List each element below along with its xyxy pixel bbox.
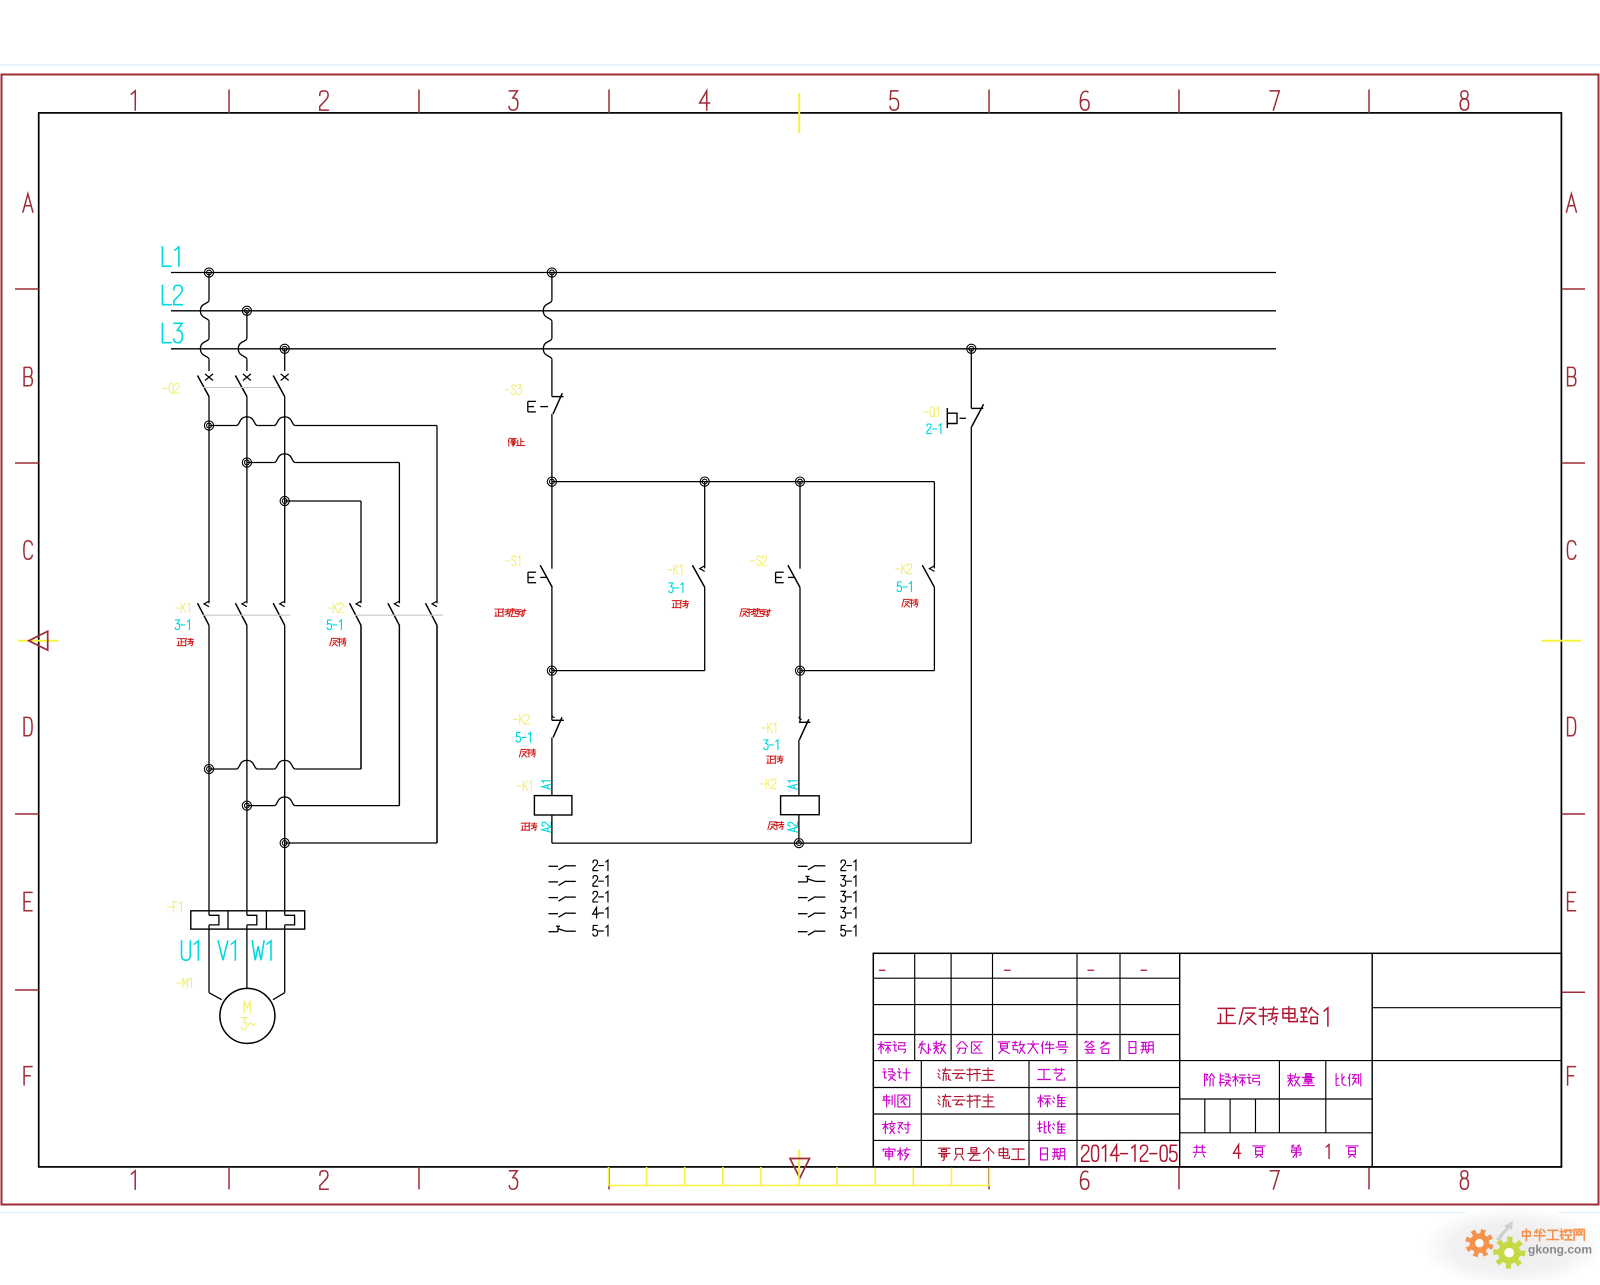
wire L3 drop to breaker xyxy=(284,349,286,371)
label A1 (K2) xyxy=(788,781,797,789)
pushbutton S1 start (NO) xyxy=(540,565,552,587)
label K2 interlock xyxy=(514,714,530,724)
contactor K2 interlock contact (NC) xyxy=(551,671,553,721)
page artifact line bottom xyxy=(0,1212,1600,1214)
node K1 pole1 out xyxy=(204,764,213,773)
wire control drop from L1 xyxy=(551,273,553,301)
wire V1 to motor xyxy=(246,929,248,988)
wire to overload pole3 xyxy=(284,843,286,915)
thermal overload F1 box xyxy=(191,911,305,929)
power rail L2 xyxy=(171,310,1276,312)
breaker Q2 pole 3 xyxy=(281,374,289,381)
wire L2 drop to breaker xyxy=(246,311,248,339)
power rail L1 xyxy=(171,272,1276,274)
wire to overload pole1 xyxy=(208,769,210,915)
wire U1 to motor xyxy=(208,929,210,993)
zone tick marks right xyxy=(1561,288,1585,290)
wire K1 pole3 feed xyxy=(284,501,286,603)
contactor K2 main contact pole2 xyxy=(394,601,399,607)
wire L3 to K2 pole1 xyxy=(285,500,361,502)
label K2 aux xyxy=(896,564,912,574)
title block row labels xyxy=(878,1043,884,1045)
wire W1 to motor xyxy=(284,929,286,993)
centre marker bottom (yellow line and red triangle) xyxy=(798,1150,800,1173)
wire S1 down xyxy=(551,587,553,670)
wire S3 to node xyxy=(551,414,553,482)
label stop xyxy=(508,438,509,441)
node K1 pole2 out xyxy=(242,801,251,810)
label A1 (K1) xyxy=(542,781,551,789)
centre marker right (yellow) xyxy=(1541,640,1581,642)
power rail L3 xyxy=(171,348,1276,350)
centre marker top (yellow) xyxy=(798,93,800,133)
zone tick marks top xyxy=(228,90,230,113)
label K1 aux xyxy=(668,565,682,575)
label K2 coil xyxy=(760,779,776,789)
node after breaker pole3 xyxy=(280,496,289,505)
label M1 xyxy=(177,978,191,988)
zone letters right xyxy=(1566,194,1576,212)
stage mark row xyxy=(1204,1074,1206,1086)
zone tick marks bottom xyxy=(228,1167,230,1190)
label L1 xyxy=(162,247,178,266)
node L1 tap main xyxy=(204,268,213,277)
label A2 (K1) xyxy=(542,822,551,832)
wire join pole3 xyxy=(285,842,437,844)
coil K1 xyxy=(534,796,572,815)
label V1 xyxy=(218,941,235,960)
contactor K2 linkage xyxy=(355,614,443,616)
wire self hold join left xyxy=(552,670,705,672)
svg-text:gkong.com: gkong.com xyxy=(1528,1243,1592,1257)
title block outline xyxy=(873,953,1561,1167)
node mid right xyxy=(795,666,804,675)
label K1 interlock xyxy=(762,723,776,733)
label S3 xyxy=(506,385,522,395)
label W1 xyxy=(252,941,271,960)
label M 3~ xyxy=(244,1001,250,1013)
watermark gear orange xyxy=(1465,1229,1493,1257)
label forward start xyxy=(495,608,503,610)
node coil K2 bottom xyxy=(794,839,803,848)
label S2 xyxy=(751,556,767,566)
overload heater element at 284.7 xyxy=(285,915,295,925)
breaker Q2 linkage xyxy=(203,387,279,389)
wire coil K2 to bottom bus xyxy=(798,815,800,843)
watermark gear green xyxy=(1493,1237,1525,1269)
wire return down xyxy=(970,427,972,843)
overload heater element at 209 xyxy=(209,915,219,925)
overload heater element at 246.9 xyxy=(247,915,257,925)
motor M1 circle xyxy=(220,988,275,1043)
breaker Q2 pole 2 xyxy=(243,374,251,381)
label Q1 xyxy=(924,407,938,417)
folding scale comb (yellow) xyxy=(609,1185,990,1187)
label forward (coil K1) xyxy=(521,822,529,824)
title block grid xyxy=(873,977,1179,979)
title block header dashes xyxy=(879,969,885,971)
contactor K1 main contact pole2 xyxy=(242,601,247,607)
drawing frame inner border xyxy=(39,113,1562,1167)
node L2 tap main xyxy=(242,306,251,315)
label L3 xyxy=(162,323,182,342)
wire L1 to K2 pole3 xyxy=(209,425,236,427)
watermark arrow xyxy=(1496,1221,1513,1241)
contactor K1 main contact pole3 xyxy=(280,601,285,607)
pushbutton S2 start reverse (NO) xyxy=(788,565,800,587)
contactor K1 aux contact (self hold) xyxy=(704,482,706,569)
wire K1 pole2 feed xyxy=(246,463,248,604)
label reverse start xyxy=(742,608,748,610)
wire self hold join right xyxy=(800,670,934,672)
wire L3 return drop xyxy=(970,349,972,409)
label K2 main xyxy=(327,603,343,613)
label K1 main xyxy=(175,603,189,613)
control bottom bus xyxy=(552,842,971,844)
zone numbers bottom xyxy=(131,1171,135,1189)
contactor K1 linkage xyxy=(203,614,290,616)
node control top left xyxy=(547,477,556,486)
wire node to S1 xyxy=(551,482,553,569)
wire S2 down xyxy=(799,587,801,670)
label F1 xyxy=(167,902,181,912)
label U1 xyxy=(182,941,199,960)
drawing title xyxy=(1218,1007,1235,1009)
node L1 tap control xyxy=(547,268,556,277)
centre marker left (yellow line and red triangle) xyxy=(18,640,58,642)
breaker Q1 auxiliary contact xyxy=(971,407,983,409)
wire join pole1 xyxy=(209,768,236,770)
watermark glow xyxy=(1420,1207,1600,1285)
label S1 xyxy=(506,556,520,566)
label reverse (coil K2) xyxy=(770,821,776,823)
title block values xyxy=(939,1070,940,1072)
wire L1 drop to breaker xyxy=(208,273,210,301)
wire join pole2 xyxy=(247,805,274,807)
wire control bus top xyxy=(552,481,935,483)
wire node to S2 xyxy=(799,482,801,569)
contact reference table K1 xyxy=(549,865,559,867)
node branch K1 aux xyxy=(700,477,709,486)
label L2 xyxy=(162,285,182,304)
node L3 tap main xyxy=(280,344,289,353)
page artifact line top xyxy=(0,64,1600,66)
pushbutton S3 stop (NC) xyxy=(552,396,564,398)
node K1 pole3 out xyxy=(280,838,289,847)
contactor K2 aux contact (self hold) xyxy=(933,482,935,569)
sheet numbering xyxy=(1196,1145,1198,1152)
contactor K1 interlock contact (NC) xyxy=(799,671,801,723)
node after breaker pole2 xyxy=(242,458,251,467)
coil K2 xyxy=(781,796,820,815)
wire L2 to K2 pole2 xyxy=(247,462,274,464)
wire to overload pole2 xyxy=(246,806,248,916)
contactor K2 main contact pole3 xyxy=(432,601,437,607)
node after breaker pole1 xyxy=(204,421,213,430)
node mid left xyxy=(547,666,556,675)
watermark text cn xyxy=(1523,1232,1531,1237)
label Q2 xyxy=(163,383,179,393)
contactor K1 main contact pole1 xyxy=(204,601,209,607)
breaker Q2 pole 1 xyxy=(205,374,213,381)
node L3 tap control return xyxy=(967,344,976,353)
label A2 (K2) xyxy=(788,822,797,832)
contact reference table K2 xyxy=(798,865,808,867)
node branch S2 xyxy=(795,477,804,486)
label K1 coil xyxy=(517,781,531,791)
wire K1 pole1 feed xyxy=(208,426,210,604)
wire coil K1 to bottom bus xyxy=(551,815,553,843)
contactor K2 main contact pole1 xyxy=(356,601,361,607)
zone numbers top xyxy=(131,91,135,110)
zone tick marks left xyxy=(15,288,39,290)
zone letters left xyxy=(23,194,33,212)
